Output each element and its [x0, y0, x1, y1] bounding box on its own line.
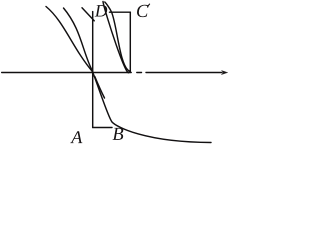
axis arrowhead	[221, 70, 227, 74]
curve S2 upper-left inner	[64, 8, 93, 71]
axis right part	[146, 72, 222, 74]
bottom edge A-B	[93, 127, 112, 129]
label A	[70, 131, 82, 143]
C terminal tick	[148, 4, 150, 7]
lower curve main through B	[93, 73, 211, 143]
vertical line V1 (through origin, down to A)	[92, 12, 94, 128]
x axis main	[2, 72, 132, 74]
label D	[95, 5, 108, 16]
curve S1 upper-left outer	[46, 7, 92, 72]
label B	[113, 128, 124, 140]
label C	[137, 5, 148, 17]
diagonal tick near D	[82, 8, 94, 21]
curve S4 upper-right inner	[105, 2, 130, 71]
right vertical V2 (C down to axis)	[129, 12, 131, 71]
lower curve second short stroke	[95, 77, 105, 99]
curve S3 upper-right outer	[103, 2, 129, 73]
axis dash	[137, 72, 142, 74]
top edge D-C	[110, 11, 131, 13]
